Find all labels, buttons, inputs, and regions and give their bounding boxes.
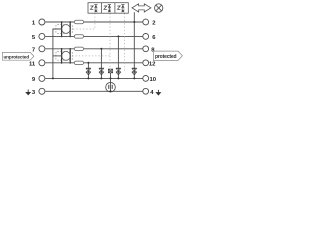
wire disconnect to bus [110, 73, 112, 79]
resistor R3 line3 [74, 47, 83, 50]
wire PE 3-4 [45, 90, 143, 92]
junction D4 bus [133, 77, 135, 79]
junction D1 bus [87, 77, 89, 79]
svg-text:2: 2 [152, 21, 156, 27]
dashed indicator stage2 [73, 13, 111, 56]
indicator lamp symbol [155, 4, 163, 12]
junction D1 line4 [87, 62, 89, 64]
ground arrow right [156, 90, 160, 95]
wire F1 center electrode [53, 29, 62, 78]
gas discharge tube F2 electrode left [61, 48, 63, 64]
resistor R4 line4 [74, 61, 83, 64]
disconnect device box with X [108, 69, 112, 73]
wire bus 9-10 [45, 77, 143, 79]
svg-text:unprotected: unprotected [3, 54, 29, 59]
svg-text:12: 12 [149, 61, 156, 67]
svg-text:protected: protected [155, 54, 177, 60]
svg-text:1: 1 [32, 21, 36, 27]
legend divider 2 [114, 3, 116, 14]
suppressor diode D1 [86, 68, 91, 75]
gas discharge tube F3 feed wire [110, 78, 112, 91]
suppressor diode D2 [99, 68, 104, 75]
terminal 12 [143, 60, 149, 66]
svg-text:7: 7 [32, 47, 36, 53]
protected flag [153, 51, 182, 60]
suppressor diode D4 lead [133, 12, 135, 78]
gas discharge tube F1 circle [62, 25, 71, 34]
svg-text:11: 11 [29, 61, 36, 67]
svg-text:9: 9 [32, 77, 36, 83]
svg-text:10: 10 [150, 77, 157, 83]
resistor R1 line1 [74, 20, 83, 23]
suppressor diode D3 lead [117, 36, 119, 78]
gas discharge tube F2 dashed enclosure [56, 52, 72, 61]
junction F3 PE [110, 90, 112, 92]
dashed indicator stage1 [73, 13, 95, 29]
terminal 11 [39, 60, 45, 66]
legend arrester symbol 3 [117, 5, 124, 13]
terminal 4 [143, 88, 149, 94]
suppressor diode D3 [116, 68, 121, 75]
dashed indicator stage3 [124, 13, 126, 70]
gas discharge tube F3 circle [106, 82, 116, 92]
gas discharge tube F1 electrode left [61, 21, 63, 37]
junction D3 bus [117, 77, 119, 79]
suppressor diode D1 lead [87, 63, 89, 79]
junction ground wire to bus [52, 77, 54, 79]
suppressor diode D4 [132, 68, 137, 75]
resistor R2 line2 [74, 35, 83, 38]
legend arrester symbol 2 [104, 5, 111, 13]
junction D2 bus [100, 77, 102, 79]
junction D3 line2 [117, 35, 119, 37]
wire line1 1-2 [45, 21, 143, 23]
gas discharge tube F1 dashed enclosure [56, 25, 72, 34]
terminal 3 [39, 88, 45, 94]
terminal 10 [143, 76, 149, 82]
legend arrester symbol 1 [90, 5, 97, 13]
svg-text:3: 3 [32, 90, 36, 96]
gas discharge tube F2 electrode right [69, 48, 71, 64]
junction disconnect bus [110, 77, 112, 79]
wire line2 5-6 [45, 35, 143, 37]
junction D2 line3 [100, 48, 102, 50]
terminal 1 [39, 19, 45, 25]
gas discharge tube F1 electrode right [69, 21, 71, 37]
terminal 6 [143, 34, 149, 40]
terminal 9 [39, 75, 45, 81]
unprotected flag [2, 52, 34, 60]
legend divider 1 [100, 3, 102, 14]
terminal 7 [39, 46, 45, 52]
dashed indicator stage2 drop [109, 56, 111, 69]
wire F2 center electrode [53, 55, 62, 57]
terminal 5 [39, 33, 45, 39]
svg-text:6: 6 [152, 35, 156, 41]
double arrow symbol [132, 4, 151, 12]
suppressor diode D2 lead [100, 49, 102, 79]
terminal 8 [143, 46, 149, 52]
gas discharge tube F2 circle [62, 52, 71, 61]
gas discharge tube F3 electrode right [111, 85, 113, 89]
wire line3 7-8 [45, 48, 143, 50]
ground arrow left [26, 90, 30, 95]
junction D4 line1 [133, 21, 135, 23]
svg-text:4: 4 [150, 90, 154, 96]
svg-text:5: 5 [32, 35, 36, 41]
wire line4 11-12 [45, 62, 143, 64]
terminal 2 [143, 19, 149, 25]
legend box [88, 3, 128, 14]
gas discharge tube F3 electrode left [108, 85, 110, 89]
